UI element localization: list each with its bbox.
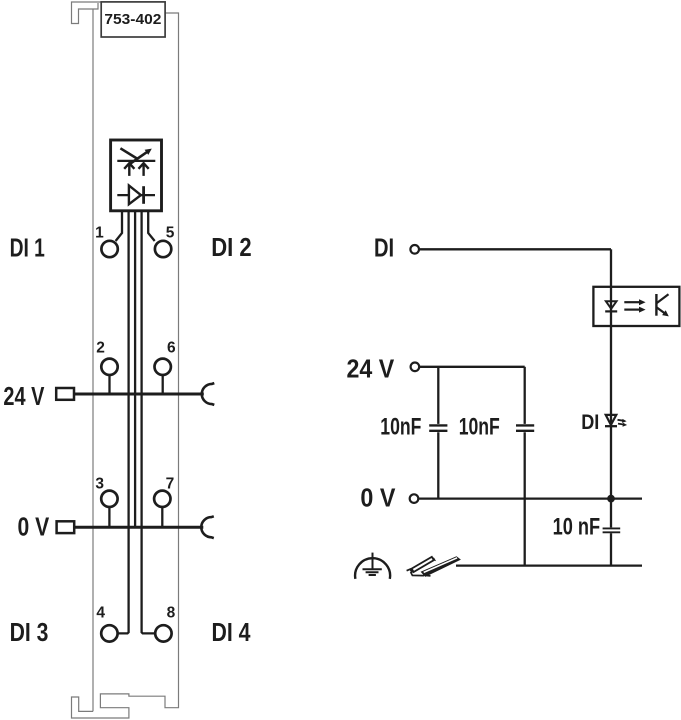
module body outline top hook [72, 2, 102, 24]
24V power rail [74, 393, 204, 396]
phototransistor base bar [655, 294, 657, 316]
node DI terminal circle [410, 245, 419, 254]
DIN rail bottom notched outline [411, 572, 431, 576]
capacitor C3 plates [603, 528, 621, 532]
wire stub to 0V rail [134, 211, 136, 527]
svg-text:0 V: 0 V [360, 484, 395, 512]
wire terminal 2 to 24V rail [108, 375, 110, 394]
svg-text:2: 2 [96, 339, 105, 356]
suppressor diagonal stroke [120, 148, 137, 159]
terminal 4 [101, 625, 117, 641]
ground symbol arc [355, 558, 390, 579]
optocoupler LED triangle [606, 301, 617, 309]
wire terminal 6 to 24V rail [162, 375, 164, 394]
24V connector lug [56, 388, 74, 400]
svg-text:753-402: 753-402 [104, 12, 161, 28]
diode D1 cathode bar [142, 186, 145, 204]
svg-text:DI 1: DI 1 [10, 234, 45, 262]
suppressor arrow shaft [129, 152, 148, 165]
DIN rail front bar stripe [424, 558, 457, 573]
suppressor up arrow right [139, 163, 149, 176]
filter box U1 [111, 140, 162, 211]
svg-text:7: 7 [166, 475, 175, 492]
phototransistor collector [657, 294, 669, 303]
suppressor symbol horizontal line [117, 160, 155, 162]
0V clamp contact [201, 516, 214, 538]
DIN rail back bar top face [412, 557, 434, 572]
0V right terminal circle [410, 494, 419, 503]
LED light arrow 1 [618, 420, 625, 421]
phototransistor emitter arrowhead [662, 310, 669, 316]
wire through optocoupler [610, 287, 612, 326]
module left edge wall [92, 9, 94, 711]
0V power rail [74, 526, 203, 529]
suppressor arrowhead [145, 149, 152, 155]
svg-text:8: 8 [167, 604, 176, 621]
ground symbol stem [372, 553, 374, 570]
svg-text:DI 4: DI 4 [212, 619, 252, 647]
capacitor C3 bottom wire [610, 533, 612, 565]
wire optocoupler down to LED [610, 326, 612, 499]
svg-text:3: 3 [95, 475, 104, 492]
terminal 1 [101, 241, 117, 257]
24V right terminal circle [411, 363, 420, 372]
wire bottom shield line [456, 564, 642, 566]
optocoupler LED cathode bar [605, 310, 617, 312]
terminal 6 [155, 359, 171, 375]
label box 753-402 [101, 2, 165, 37]
terminal 5 [155, 241, 171, 257]
terminal 3 [101, 491, 117, 507]
DIN rail back bar left end cap [410, 569, 414, 574]
svg-text:DI 3: DI 3 [10, 619, 49, 647]
svg-text:DI: DI [374, 235, 394, 263]
LED DI cathode bar [605, 425, 617, 427]
svg-text:10nF: 10nF [459, 413, 500, 440]
capacitor C3 top wire [610, 499, 612, 528]
wire 0V right horizontal [419, 497, 642, 499]
svg-text:6: 6 [167, 339, 176, 356]
ground symbol earth lines [363, 569, 382, 575]
wire terminal 7 to 0V rail [161, 507, 163, 527]
svg-text:5: 5 [166, 225, 175, 242]
optocoupler arrow 2 [624, 309, 640, 311]
capacitor C1 bottom wire [437, 432, 439, 498]
wire stub to terminal 4 [118, 211, 129, 634]
wire DI down to optocoupler [610, 249, 612, 286]
wire DI horizontal [420, 248, 612, 250]
capacitor C2 bottom wire [524, 432, 526, 565]
wire stub to terminal 1 [116, 211, 122, 241]
svg-text:10nF: 10nF [380, 413, 421, 440]
node junction dot [607, 495, 615, 503]
capacitor C1 plates [429, 425, 447, 430]
phototransistor emitter [657, 307, 666, 314]
wire terminal 3 to 0V rail [108, 507, 110, 527]
svg-text:0 V: 0 V [18, 514, 50, 542]
optocoupler U2 box [593, 287, 679, 326]
svg-text:24 V: 24 V [347, 356, 395, 384]
diode D1 triangle [129, 186, 141, 205]
module bottom and right edge outline [72, 13, 179, 718]
wire stub to terminal 5 [148, 211, 155, 241]
svg-text:4: 4 [96, 604, 105, 621]
wire stub to terminal 8 [142, 211, 155, 634]
0V connector lug [57, 521, 75, 533]
terminal 2 [101, 359, 117, 375]
svg-text:DI 2: DI 2 [211, 234, 252, 262]
LED light arrow 2 [618, 424, 625, 425]
LED DI triangle [606, 415, 617, 425]
24V clamp contact [202, 383, 215, 405]
capacitor C2 top wire [524, 367, 526, 424]
capacitor C1 top wire [437, 367, 439, 424]
optocoupler arrow 1 [624, 301, 640, 303]
terminal 7 [154, 491, 170, 507]
terminal 8 [155, 625, 171, 641]
svg-text:24 V: 24 V [3, 383, 44, 411]
DIN rail front bar [421, 556, 461, 577]
svg-text:1: 1 [95, 225, 104, 242]
wire 24V right horizontal [420, 366, 525, 368]
suppressor up arrow left [124, 163, 134, 176]
capacitor C2 plates [516, 425, 534, 430]
DIN rail left tail stub [407, 569, 411, 571]
diode D1 line [117, 194, 155, 196]
svg-text:DI: DI [581, 411, 599, 434]
svg-text:10 nF: 10 nF [553, 514, 601, 541]
DIN rail back bar right end cap [432, 557, 436, 561]
